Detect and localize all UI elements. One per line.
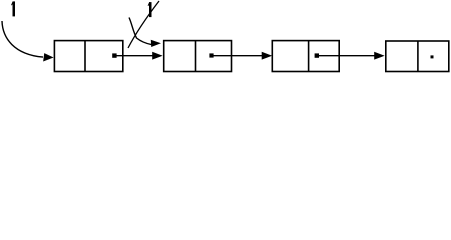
crossed arrow to node 2 (curved)	[129, 18, 160, 47]
node 3 divider	[308, 41, 310, 72]
wire arrow node1 to node2	[115, 52, 162, 59]
label 1 (head pointer, left)	[11, 1, 15, 16]
node 4 nil dot	[431, 55, 434, 58]
node 3 pointer square	[315, 53, 319, 57]
node 2 divider	[195, 41, 197, 72]
node 1 pointer square	[112, 53, 116, 57]
node 2 pointer square	[209, 53, 213, 57]
node 3 box	[272, 41, 339, 72]
strike line over crossed arrow and label	[128, 1, 159, 48]
node 4 divider	[417, 41, 419, 72]
node 1 box	[54, 41, 122, 72]
node 4 box	[386, 41, 449, 72]
wire arrow node2 to node3	[212, 52, 272, 59]
arrow from label 1 to node 1 (curved)	[2, 21, 53, 61]
wire arrow node3 to node4	[317, 52, 384, 59]
node 2 box	[164, 41, 232, 72]
label 1 (crossed, near node 2)	[148, 2, 152, 17]
node 1 divider	[84, 41, 86, 72]
